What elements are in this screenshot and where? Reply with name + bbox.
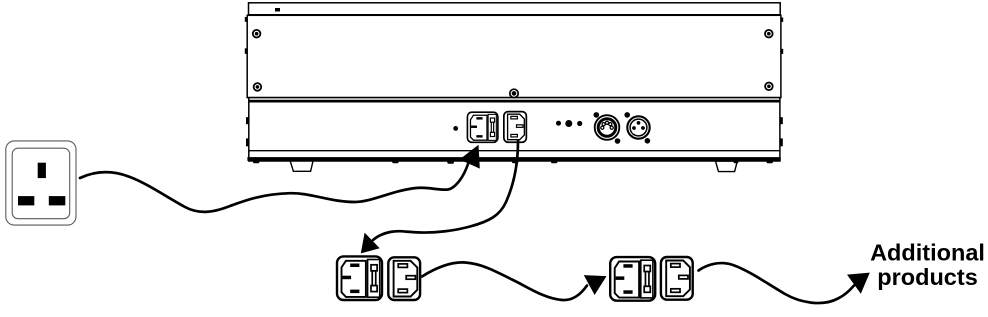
power LED dot xyxy=(453,126,458,131)
svg-text:Additional: Additional xyxy=(870,240,985,266)
wire: first linked outlet to second linked inlet xyxy=(422,262,587,300)
screw top-left xyxy=(253,30,261,38)
indicator dot right xyxy=(577,121,582,126)
XLR 3-pin male connector xyxy=(627,116,649,138)
panel IEC outlet xyxy=(504,112,527,143)
svg-text:products: products xyxy=(877,264,978,290)
second linked IEC inlet + fuse combo xyxy=(610,257,655,301)
second linked IEC outlet xyxy=(661,257,693,300)
XLR 3-pin mounting screws xyxy=(624,112,650,144)
screw bottom-center xyxy=(510,89,518,97)
screw top-right xyxy=(765,30,773,38)
right hinge tabs lower panel xyxy=(780,117,783,146)
device upper rear panel xyxy=(247,15,781,97)
indicator dot left xyxy=(556,121,561,126)
left hinge tabs upper panel xyxy=(245,17,248,54)
arrowhead toward additional products xyxy=(847,273,870,294)
XLR 5-pin mounting screws xyxy=(594,112,621,144)
arrowhead into device inlet xyxy=(460,145,480,169)
chassis bottom bumps xyxy=(253,160,773,163)
label: Additional products xyxy=(870,240,985,290)
wire: device outlet down to first linked inlet xyxy=(373,141,518,240)
arrowhead into second linked inlet xyxy=(584,275,607,295)
device lower connector panel xyxy=(247,98,780,161)
device rear panel chassis top strip xyxy=(249,3,781,16)
XLR 5-pin female connector xyxy=(595,115,620,140)
screw bottom-left xyxy=(254,83,262,91)
panel IEC inlet + fuse combo xyxy=(467,112,497,142)
first linked IEC inlet + fuse combo xyxy=(337,256,382,300)
wire: socket to device inlet xyxy=(80,164,468,212)
right foot xyxy=(716,161,738,171)
indicator dot middle xyxy=(565,120,572,127)
right hinge tabs upper panel xyxy=(781,18,784,54)
UK mains socket xyxy=(6,141,76,225)
left foot xyxy=(290,161,313,171)
left hinge tabs lower panel xyxy=(246,117,249,146)
screw bottom-right xyxy=(765,83,773,91)
arrowhead into first linked inlet xyxy=(361,233,380,254)
wire: second linked outlet to additional products xyxy=(699,263,855,303)
chassis top strip label mark xyxy=(275,8,280,12)
first linked IEC outlet xyxy=(388,257,420,300)
